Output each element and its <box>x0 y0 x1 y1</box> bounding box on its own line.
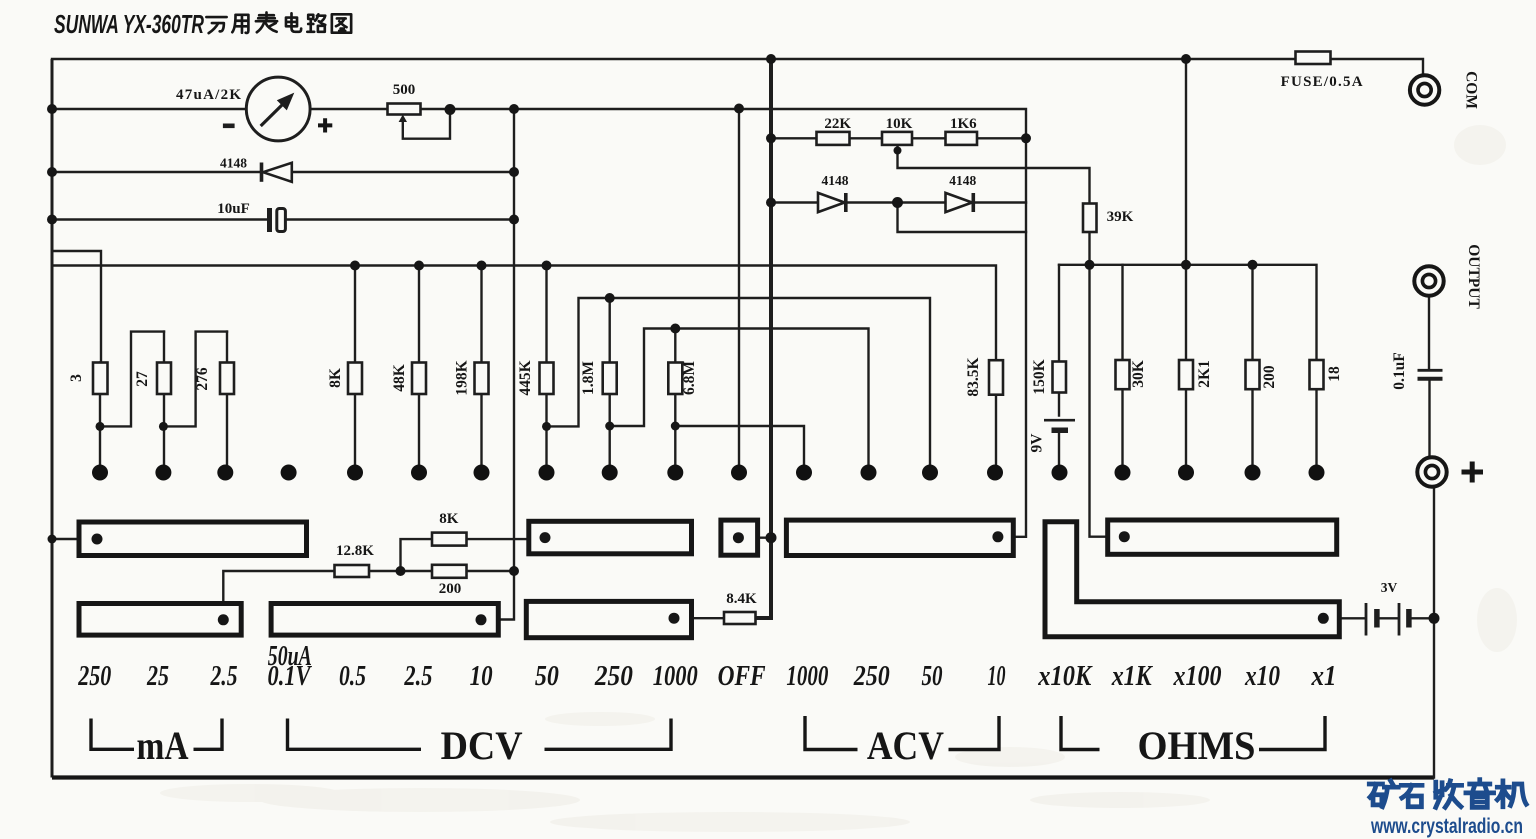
svg-text:1K6: 1K6 <box>950 116 977 132</box>
svg-text:30K: 30K <box>1130 360 1147 388</box>
svg-text:OHMS: OHMS <box>1138 723 1256 768</box>
svg-text:9V: 9V <box>1029 433 1046 453</box>
svg-text:SUNWA YX-360TR: SUNWA YX-360TR <box>54 9 204 39</box>
svg-text:x100: x100 <box>1173 661 1222 692</box>
svg-text:3V: 3V <box>1381 580 1398 595</box>
svg-text:22K: 22K <box>824 116 851 132</box>
svg-text:50: 50 <box>922 661 943 692</box>
svg-text:150K: 150K <box>1031 359 1048 394</box>
svg-text:198K: 198K <box>454 360 471 395</box>
svg-text:8.4K: 8.4K <box>726 591 757 607</box>
svg-text:200: 200 <box>1261 365 1278 389</box>
svg-text:4148: 4148 <box>220 156 247 171</box>
svg-text:200: 200 <box>439 581 462 597</box>
svg-text:1000: 1000 <box>653 661 698 692</box>
svg-text:250: 250 <box>594 661 633 692</box>
svg-text:27: 27 <box>134 371 151 387</box>
svg-text:1.8M: 1.8M <box>580 361 597 395</box>
svg-text:18: 18 <box>1326 366 1343 382</box>
svg-text:12.8K: 12.8K <box>336 543 374 559</box>
svg-text:6.8M: 6.8M <box>681 361 698 395</box>
svg-text:3: 3 <box>68 374 85 382</box>
svg-text:10uF: 10uF <box>217 201 250 217</box>
svg-text:0.1V: 0.1V <box>268 661 313 692</box>
svg-text:x10: x10 <box>1244 661 1280 692</box>
svg-text:FUSE/0.5A: FUSE/0.5A <box>1281 74 1363 90</box>
svg-text:276: 276 <box>194 367 211 391</box>
svg-text:2K1: 2K1 <box>1196 360 1213 388</box>
svg-text:10: 10 <box>470 661 493 692</box>
svg-text:DCV: DCV <box>441 723 523 768</box>
svg-text:47uA/2K: 47uA/2K <box>176 87 241 103</box>
svg-text:10: 10 <box>988 661 1006 692</box>
svg-text:x10K: x10K <box>1037 661 1093 692</box>
svg-text:x1K: x1K <box>1111 661 1154 692</box>
svg-text:COM: COM <box>1463 71 1480 109</box>
svg-text:39K: 39K <box>1107 209 1134 225</box>
svg-text:250: 250 <box>77 661 111 692</box>
svg-text:2.5: 2.5 <box>404 661 433 692</box>
svg-text:4148: 4148 <box>822 173 849 188</box>
svg-text:0.5: 0.5 <box>339 661 366 692</box>
svg-text:83.5K: 83.5K <box>965 357 982 396</box>
svg-text:2.5: 2.5 <box>210 661 238 692</box>
svg-text:x1: x1 <box>1311 661 1337 692</box>
svg-text:www.crystalradio.cn: www.crystalradio.cn <box>1370 815 1523 838</box>
svg-text:OUTPUT: OUTPUT <box>1465 244 1482 309</box>
svg-text:10K: 10K <box>886 116 913 132</box>
svg-text:4148: 4148 <box>949 173 976 188</box>
svg-text:1000: 1000 <box>786 661 828 692</box>
svg-text:25: 25 <box>146 661 169 692</box>
svg-text:ACV: ACV <box>867 723 944 768</box>
svg-text:8K: 8K <box>327 368 344 388</box>
svg-text:48K: 48K <box>391 364 408 392</box>
svg-text:445K: 445K <box>517 360 534 395</box>
svg-text:OFF: OFF <box>718 661 766 692</box>
svg-text:mA: mA <box>137 723 189 768</box>
svg-text:8K: 8K <box>439 511 459 527</box>
svg-text:50: 50 <box>535 661 559 692</box>
svg-text:250: 250 <box>853 661 890 692</box>
svg-text:500: 500 <box>393 82 416 98</box>
svg-text:0.1uF: 0.1uF <box>1391 352 1408 389</box>
